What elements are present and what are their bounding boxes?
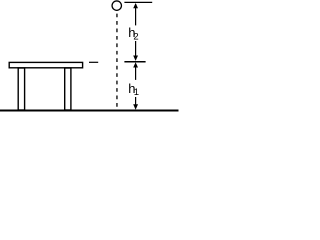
h1 bottom arrowhead (down) [133,104,138,109]
top reference line [124,1,152,3]
ball [112,1,121,10]
h1 top arrowhead (up) [133,62,138,67]
svg-text:2: 2 [133,31,138,42]
svg-text:1: 1 [134,87,139,98]
ground [0,110,179,112]
h2 dimension shaft lower [135,41,137,57]
tabletop [9,62,82,67]
right table leg [65,68,71,110]
h1 dimension shaft upper [135,65,137,80]
left table leg [18,68,24,110]
table-level dash [89,61,98,63]
h2 dimension shaft upper [135,4,137,25]
h2 top arrowhead (up) [133,3,138,8]
dashed drop line [116,14,118,107]
h1 dimension shaft lower [135,97,137,106]
mid tick (table level) [124,61,145,63]
h2 bottom arrowhead (down) [133,56,138,61]
